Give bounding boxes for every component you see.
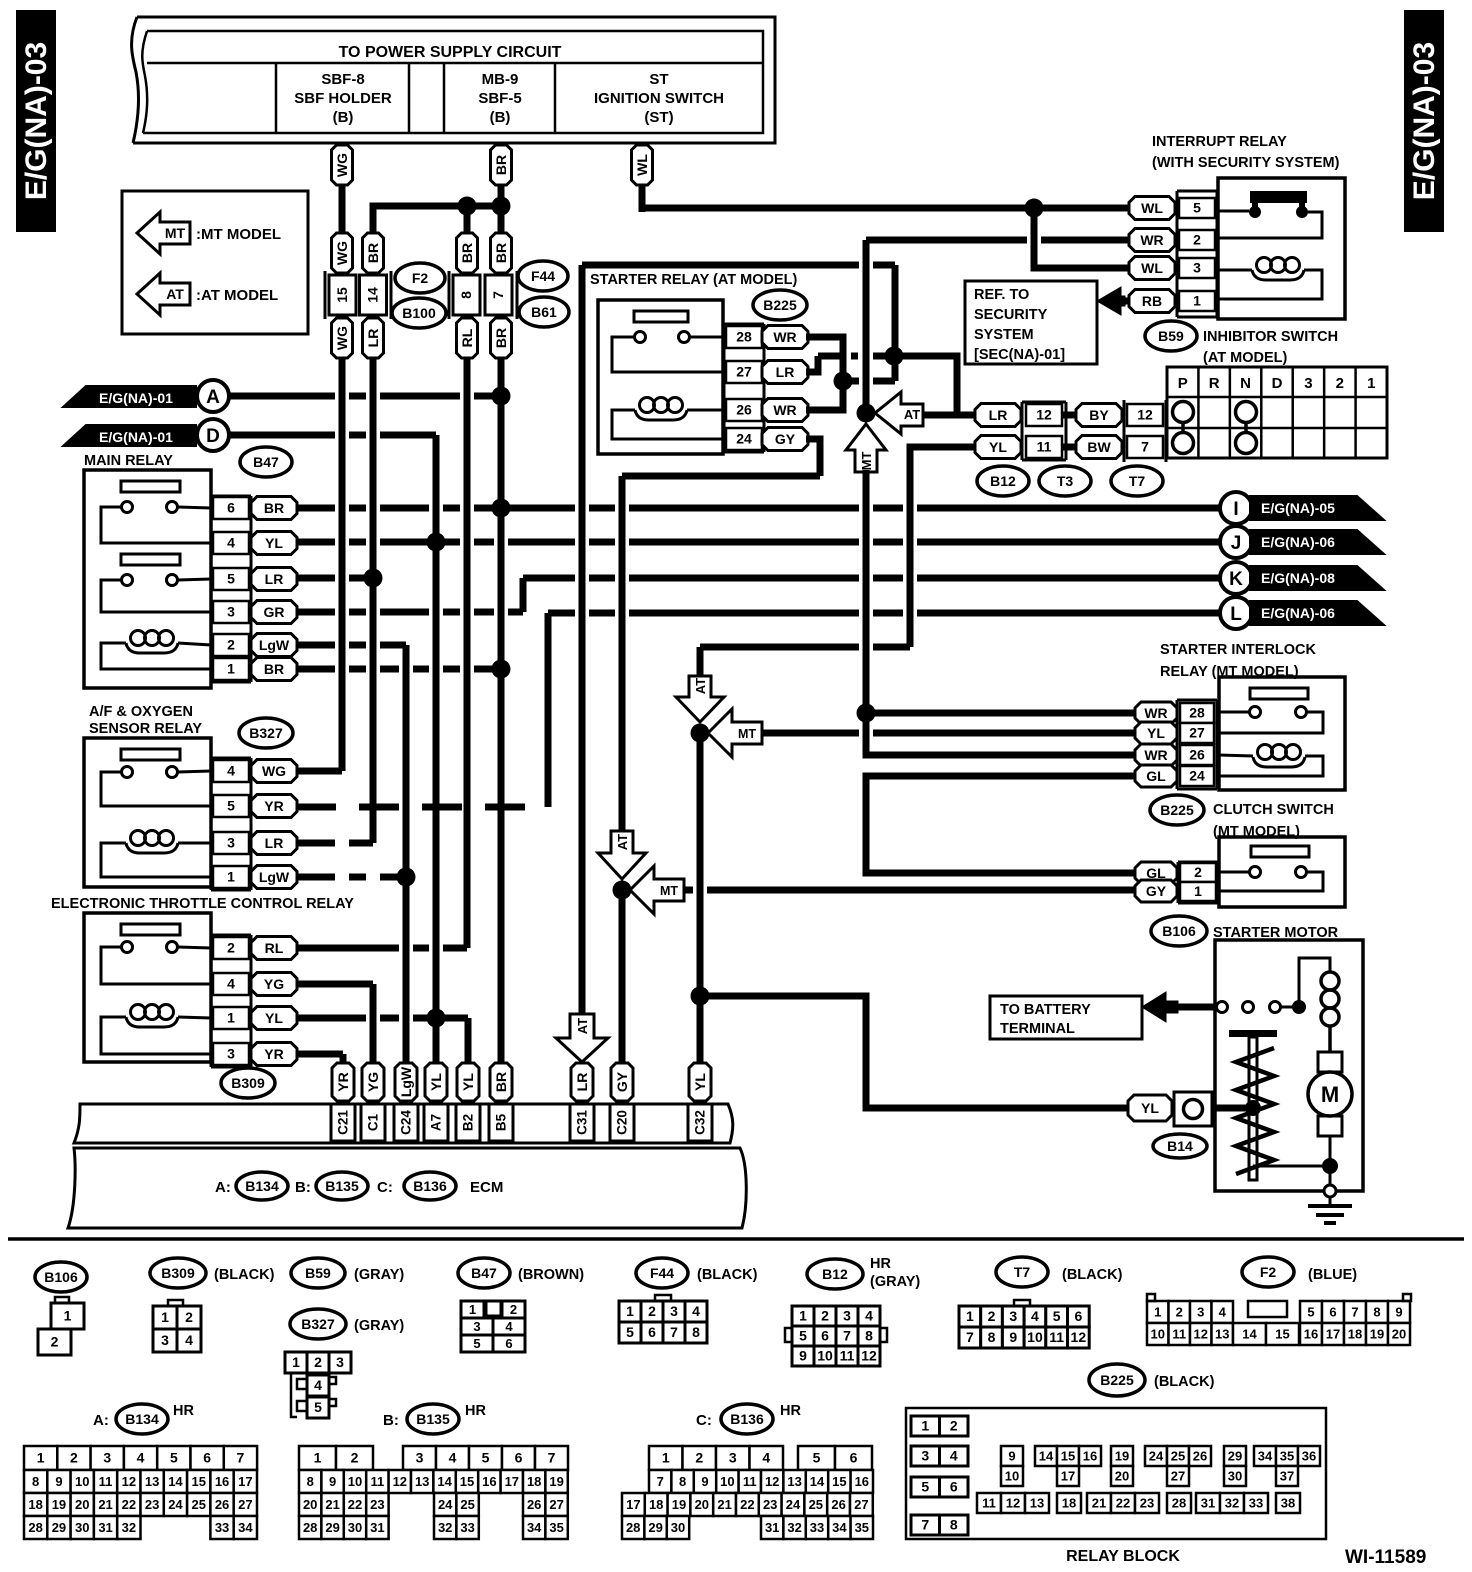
svg-text:WG: WG (334, 326, 350, 350)
power supply circuit box (133, 17, 775, 143)
wire YL link row (700, 644, 910, 651)
svg-text:BR: BR (493, 155, 509, 175)
inhibitor contacts P/N (1173, 402, 1194, 423)
banner E/G(NA)-01 D (63, 425, 196, 446)
connector B59 label (291, 1258, 345, 1288)
ECM pin C24 (394, 1104, 418, 1141)
ground terminal (1324, 1185, 1336, 1197)
tag BR above ECM B5 (490, 1063, 512, 1101)
svg-text:11: 11 (1049, 1329, 1064, 1345)
svg-text:A: A (206, 387, 220, 408)
tag WR pin2 (1129, 229, 1175, 252)
tag LR above ECM C31 (571, 1063, 593, 1101)
svg-text:A:: A: (93, 1412, 109, 1429)
svg-text:(BLUE): (BLUE) (1308, 1267, 1357, 1283)
ETC relay contact (121, 924, 180, 935)
ECM connector band (74, 1104, 733, 1143)
main relay pin strip (210, 496, 213, 682)
wire motor to ground (1329, 1166, 1332, 1186)
A/F relay coil (131, 831, 146, 846)
svg-text:(ST): (ST) (644, 109, 673, 126)
wire YL corner (697, 647, 704, 677)
svg-text:4: 4 (865, 1308, 873, 1324)
tag GY pin1 (1135, 880, 1177, 902)
wire LR pin5 row (296, 575, 373, 582)
wire row D (229, 432, 436, 439)
tag LR pin12 (975, 404, 1021, 427)
svg-text:A:: A: (215, 1179, 231, 1196)
svg-text:33: 33 (1249, 1496, 1263, 1511)
svg-text:(BLACK): (BLACK) (1062, 1267, 1123, 1283)
svg-text:10: 10 (75, 1474, 89, 1489)
tag WL pin3 (1129, 257, 1175, 280)
svg-text:10: 10 (817, 1348, 833, 1364)
svg-text:B135: B135 (416, 1411, 450, 1427)
svg-text:LR: LR (365, 329, 381, 348)
svg-text:30: 30 (1228, 1469, 1242, 1484)
svg-text:22: 22 (348, 1497, 362, 1512)
svg-text:WL: WL (1141, 260, 1163, 276)
connector T7 (1111, 466, 1163, 496)
svg-text:28: 28 (28, 1520, 42, 1535)
connector B309 (221, 1068, 275, 1098)
svg-text:3: 3 (921, 1448, 929, 1464)
wire WG pin4 row (296, 768, 342, 775)
tag WG pin4 (251, 760, 297, 783)
svg-text:A7: A7 (429, 1114, 444, 1131)
tag BR pin1 (251, 658, 297, 681)
tag YL above ECM A7 (425, 1063, 447, 1101)
junction WL (1025, 199, 1044, 218)
wire row A (229, 393, 501, 400)
svg-text:1: 1 (314, 1450, 322, 1466)
wire YL down to C32 (697, 733, 704, 1065)
relay block pinout (906, 1408, 1326, 1539)
svg-text:5: 5 (473, 1336, 480, 1351)
page label bar left E/G(NA)-03 (16, 10, 56, 232)
svg-text:10: 10 (720, 1474, 734, 1489)
svg-text:LR: LR (989, 407, 1008, 423)
svg-text:(BLACK): (BLACK) (697, 1267, 758, 1283)
svg-text:8: 8 (458, 291, 474, 299)
tag BY pin12 (1076, 404, 1122, 427)
svg-text:LgW: LgW (259, 637, 290, 653)
wire YG pin4 row (296, 981, 373, 988)
wire YL pin1 row (296, 1015, 468, 1022)
svg-text:L: L (1230, 604, 1242, 625)
svg-text:HR: HR (780, 1403, 801, 1419)
svg-text:SBF-5: SBF-5 (478, 90, 521, 107)
tag LR pin5 (251, 568, 297, 591)
ECM pin B5 (489, 1104, 513, 1141)
svg-text:9: 9 (1008, 1449, 1015, 1464)
starter spring (1236, 1048, 1274, 1174)
svg-text:(GRAY): (GRAY) (354, 1267, 404, 1283)
wire LR top run (582, 262, 895, 269)
svg-text:33: 33 (460, 1520, 474, 1535)
svg-text:E/G(NA)-01: E/G(NA)-01 (99, 390, 173, 406)
svg-text:BR: BR (459, 243, 475, 263)
wire WR vertical (863, 240, 870, 415)
svg-text:E/G(NA)-01: E/G(NA)-01 (99, 429, 173, 445)
svg-text:10: 10 (1151, 1327, 1165, 1342)
svg-text:1: 1 (227, 661, 235, 677)
wire WR vertical lower (863, 470, 870, 717)
A/F relay contact (121, 749, 180, 760)
svg-text:8: 8 (307, 1474, 314, 1489)
svg-text:YL: YL (265, 1010, 283, 1026)
svg-text:WR: WR (773, 329, 796, 345)
svg-text:4: 4 (449, 1450, 457, 1466)
svg-text:14: 14 (810, 1474, 825, 1489)
tag RL below pin 8 (457, 318, 478, 358)
connector F44 (518, 261, 568, 291)
svg-text:(GRAY): (GRAY) (354, 1318, 404, 1334)
svg-text:11: 11 (840, 1348, 855, 1364)
svg-text:7: 7 (843, 1328, 851, 1344)
svg-text:E/G(NA)-06: E/G(NA)-06 (1261, 605, 1335, 621)
wire LR right drop (892, 265, 899, 381)
connector B59 (1145, 321, 1197, 351)
tag WG below pin 15 (332, 318, 353, 358)
connector T7 pinout (996, 1257, 1048, 1287)
svg-text:28: 28 (736, 329, 752, 345)
svg-text:B61: B61 (531, 304, 557, 320)
svg-text:1: 1 (64, 1308, 72, 1324)
tag WR pin28 (762, 326, 808, 349)
junction BR main (492, 197, 511, 216)
wire LR vertical (370, 358, 377, 843)
svg-text:17: 17 (1061, 1469, 1075, 1484)
svg-text:2: 2 (988, 1308, 996, 1324)
svg-text:22: 22 (122, 1497, 136, 1512)
svg-text:5: 5 (813, 1450, 821, 1466)
tag GR pin3 (251, 601, 297, 624)
svg-text:2: 2 (227, 940, 235, 956)
ECM pin B2 (456, 1104, 480, 1141)
svg-text:19: 19 (549, 1474, 563, 1489)
wire WR28 row (866, 710, 1135, 717)
svg-text:3: 3 (843, 1308, 851, 1324)
svg-text:18: 18 (527, 1474, 541, 1489)
svg-text:9: 9 (55, 1474, 62, 1489)
inhibitor switch table (1167, 367, 1387, 458)
starter relay contact (634, 311, 688, 322)
svg-text:(BLACK): (BLACK) (214, 1267, 275, 1283)
svg-text:11: 11 (1037, 439, 1052, 455)
wire GY vertical (619, 476, 626, 833)
svg-text:26: 26 (1193, 1449, 1207, 1464)
junction LR pin5 (364, 569, 383, 588)
wire LR27 jog (806, 356, 818, 372)
wire branch BR horizontal (373, 206, 501, 236)
svg-text:RL: RL (265, 940, 284, 956)
svg-text:B12: B12 (990, 473, 1016, 489)
wire RL vertical (464, 358, 471, 948)
svg-text:18: 18 (28, 1497, 42, 1512)
svg-text:SBF HOLDER: SBF HOLDER (294, 90, 392, 107)
svg-text:29: 29 (1228, 1449, 1242, 1464)
starter plunger (1229, 1030, 1277, 1037)
connector F2 (395, 263, 445, 293)
svg-text:26: 26 (527, 1497, 541, 1512)
svg-text:2: 2 (70, 1450, 78, 1466)
svg-text:D: D (1272, 375, 1283, 392)
svg-text:1: 1 (626, 1303, 634, 1319)
clutch pin cells (1177, 862, 1180, 903)
svg-text:3: 3 (1009, 1308, 1017, 1324)
svg-text:14: 14 (1242, 1327, 1257, 1342)
connector F2/B100 pins 15 14 (324, 271, 327, 319)
svg-text:27: 27 (736, 364, 752, 380)
svg-text:12: 12 (765, 1474, 779, 1489)
svg-text:B327: B327 (301, 1316, 335, 1332)
svg-text:F44: F44 (650, 1265, 674, 1281)
connector B12 (977, 466, 1029, 496)
svg-text:4: 4 (227, 763, 235, 779)
svg-text:17: 17 (238, 1474, 252, 1489)
wire GY to C20 (619, 890, 626, 1065)
svg-text:3: 3 (103, 1450, 111, 1466)
svg-text:MB-9: MB-9 (482, 71, 519, 88)
svg-text:5: 5 (1053, 1308, 1061, 1324)
svg-text:27: 27 (1189, 725, 1205, 741)
ETC relay coil (131, 1005, 146, 1020)
arrow to battery (1142, 992, 1178, 1022)
svg-text:6: 6 (203, 1450, 211, 1466)
svg-text:AT: AT (615, 834, 630, 850)
tag GY pin24 (762, 428, 808, 451)
svg-text:12: 12 (122, 1474, 136, 1489)
wire WL down to row (639, 185, 646, 212)
svg-text:23: 23 (763, 1497, 777, 1512)
svg-text:30: 30 (75, 1520, 89, 1535)
svg-text:26: 26 (1189, 747, 1205, 763)
junction YL-B14 (691, 987, 710, 1006)
svg-text:9: 9 (1009, 1329, 1017, 1345)
svg-text:11: 11 (371, 1474, 385, 1489)
svg-text:4: 4 (950, 1448, 958, 1464)
svg-text:2: 2 (1336, 375, 1344, 392)
connector T3 (1039, 466, 1091, 496)
svg-text:C32: C32 (693, 1110, 708, 1135)
node A junction (492, 387, 511, 406)
svg-text:28: 28 (626, 1520, 640, 1535)
svg-text:30: 30 (671, 1520, 685, 1535)
svg-text:B59: B59 (305, 1265, 331, 1281)
junction J-YL (427, 533, 446, 552)
svg-text:30: 30 (348, 1520, 362, 1535)
svg-text:13: 13 (1215, 1327, 1229, 1342)
arrow AT4 (AT model) (556, 1014, 608, 1062)
svg-text:35: 35 (549, 1520, 563, 1535)
svg-text:STARTER INTERLOCK: STARTER INTERLOCK (1160, 642, 1317, 658)
svg-text:9: 9 (1395, 1305, 1402, 1320)
svg-text:1: 1 (966, 1308, 974, 1324)
svg-text:26: 26 (736, 402, 752, 418)
svg-text:29: 29 (648, 1520, 662, 1535)
svg-text:2: 2 (821, 1308, 829, 1324)
junction BR pin1 (492, 660, 511, 679)
svg-text:INHIBITOR SWITCH: INHIBITOR SWITCH (1203, 329, 1338, 345)
svg-text:AT: AT (904, 407, 920, 422)
wire WG vertical to A/F relay (339, 358, 346, 771)
svg-text:1: 1 (469, 1302, 476, 1317)
svg-text:B59: B59 (1158, 328, 1184, 344)
svg-text:3: 3 (336, 1354, 344, 1370)
svg-text:15: 15 (460, 1474, 474, 1489)
svg-text:28: 28 (303, 1520, 317, 1535)
wire GL24-GL2 link (866, 776, 1135, 873)
svg-text:29: 29 (325, 1520, 339, 1535)
svg-text:22: 22 (740, 1497, 754, 1512)
junction LgW (397, 868, 416, 887)
svg-text:2: 2 (648, 1303, 656, 1319)
svg-text:MT: MT (859, 452, 874, 471)
junction plunger (1245, 1100, 1261, 1116)
svg-text:31: 31 (765, 1520, 779, 1535)
tag YG above ECM C1 (362, 1063, 384, 1101)
svg-text:27: 27 (238, 1497, 252, 1512)
svg-text:9: 9 (799, 1348, 807, 1364)
svg-text:LgW: LgW (398, 1066, 414, 1097)
svg-text:GR: GR (264, 604, 285, 620)
svg-text:3: 3 (416, 1450, 424, 1466)
svg-text:CLUTCH SWITCH: CLUTCH SWITCH (1213, 802, 1334, 818)
tag BR above pin 14 (363, 233, 384, 273)
svg-text:7: 7 (1351, 1305, 1358, 1320)
svg-text:B100: B100 (402, 305, 436, 321)
svg-text:M: M (1321, 1082, 1339, 1107)
svg-text:3: 3 (227, 604, 235, 620)
svg-text:J: J (1231, 533, 1242, 554)
svg-text:10: 10 (1027, 1329, 1043, 1345)
svg-text:31: 31 (98, 1520, 112, 1535)
svg-text:21: 21 (98, 1497, 112, 1512)
main relay contact 2 (121, 554, 180, 565)
svg-text:34: 34 (527, 1520, 542, 1535)
svg-text:3: 3 (670, 1303, 678, 1319)
junction LR node (885, 347, 904, 366)
svg-text:(B): (B) (333, 109, 354, 126)
svg-text:9: 9 (329, 1474, 336, 1489)
svg-text:N: N (1240, 375, 1251, 392)
svg-text:12: 12 (1036, 407, 1052, 423)
svg-text:P: P (1178, 375, 1188, 392)
svg-text:20: 20 (75, 1497, 89, 1512)
svg-text:24: 24 (1149, 1449, 1164, 1464)
svg-text:4: 4 (1031, 1308, 1039, 1324)
wire GY1 clutch row (684, 887, 1136, 894)
connector B100 (392, 298, 446, 328)
connector B327 (239, 718, 293, 748)
svg-text:20: 20 (1392, 1327, 1406, 1342)
svg-text:B309: B309 (161, 1265, 195, 1281)
svg-text:14: 14 (1039, 1449, 1054, 1464)
svg-text:12: 12 (1194, 1327, 1208, 1342)
wire row L (548, 610, 1220, 617)
wire row I (296, 505, 1220, 512)
svg-text:24: 24 (736, 431, 752, 447)
ground symbol (1329, 1197, 1332, 1206)
svg-text:B12: B12 (822, 1266, 848, 1282)
svg-text:22: 22 (1116, 1496, 1130, 1511)
wire plunger to motor (1253, 1165, 1330, 1168)
svg-text:4: 4 (137, 1450, 145, 1466)
svg-text:LR: LR (776, 364, 795, 380)
svg-text:16: 16 (1083, 1449, 1097, 1464)
junction YL node (691, 724, 710, 743)
svg-text:BR: BR (264, 500, 284, 516)
wire BR drop to tag 8 (464, 206, 471, 236)
svg-text:15: 15 (334, 287, 350, 303)
svg-text:21: 21 (717, 1497, 731, 1512)
starter solenoid coil (1321, 972, 1339, 990)
arrow MT3 (MT model) (630, 866, 684, 914)
wire BR from SBF-5 (498, 143, 505, 148)
junction YL pin1 (427, 1009, 446, 1028)
svg-text:B309: B309 (231, 1075, 265, 1091)
svg-text:2: 2 (1194, 864, 1202, 880)
svg-text:13: 13 (1030, 1496, 1044, 1511)
wire LR dashed row (818, 353, 887, 360)
tag YL above ECM C32 (689, 1063, 711, 1101)
svg-text:19: 19 (52, 1497, 66, 1512)
svg-text:20: 20 (1115, 1469, 1129, 1484)
wire GR pin3 row (296, 609, 523, 616)
tag YG pin4 (251, 973, 297, 996)
svg-text:MT: MT (738, 727, 756, 741)
ECM pin C1 (361, 1104, 385, 1141)
tag GL pin2 (1135, 862, 1177, 884)
tag LR pin27 (762, 361, 808, 384)
svg-text:ST: ST (649, 71, 668, 88)
tag BW pin7 (1076, 436, 1122, 459)
arrow to security system (1097, 287, 1125, 315)
svg-text:2: 2 (950, 1418, 958, 1434)
interrupt relay coil (1257, 258, 1272, 273)
svg-text:28: 28 (1172, 1496, 1186, 1511)
arrow MT1 (MT model) (846, 424, 886, 472)
starter solenoid coil wire (1299, 958, 1330, 1007)
svg-text:31: 31 (370, 1520, 384, 1535)
svg-text:33: 33 (215, 1520, 229, 1535)
svg-text:SECURITY: SECURITY (974, 307, 1048, 323)
svg-text:1: 1 (1367, 375, 1375, 392)
svg-text:B136: B136 (413, 1178, 447, 1194)
svg-text:37: 37 (1280, 1469, 1294, 1484)
interrupt relay pin strip (1176, 191, 1179, 317)
connector F44 pinout (636, 1258, 688, 1288)
clutch switch box (1219, 837, 1345, 907)
connector B47 (240, 447, 292, 477)
svg-text:B47: B47 (253, 454, 279, 470)
svg-text:A/F & OXYGEN: A/F & OXYGEN (89, 704, 193, 720)
svg-text:5: 5 (921, 1479, 929, 1495)
svg-text:STARTER RELAY (AT MODEL): STARTER RELAY (AT MODEL) (590, 272, 797, 288)
svg-text:YR: YR (335, 1072, 351, 1091)
tag BR above pin 8 (457, 233, 478, 273)
svg-text:5: 5 (227, 571, 235, 587)
svg-text:B327: B327 (249, 725, 283, 741)
svg-text:GY: GY (1146, 883, 1167, 899)
clutch contact (1251, 846, 1309, 857)
svg-text:25: 25 (1171, 1449, 1185, 1464)
svg-text:4: 4 (185, 1332, 193, 1348)
svg-text:B135: B135 (325, 1178, 359, 1194)
svg-text:27: 27 (854, 1497, 868, 1512)
svg-text:SENSOR RELAY: SENSOR RELAY (89, 721, 202, 737)
